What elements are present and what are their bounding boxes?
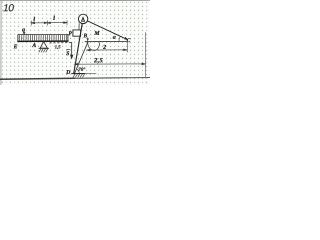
svg-text:M: M: [93, 31, 100, 37]
dimension 2.5: [75, 63, 146, 65]
dimension 2: [87, 49, 127, 51]
svg-text:B: B: [83, 33, 88, 39]
bottom page border: [0, 78, 75, 79]
cable B to C (slanted): [88, 21, 128, 40]
cable pulley to D (post): [74, 24, 83, 74]
lever horizontal bar to C: [85, 40, 127, 42]
witness line below C: [126, 40, 128, 52]
load hatch arrows: [20, 35, 67, 41]
dashed axis line: [49, 42, 71, 44]
pulley circle: [78, 14, 87, 23]
svg-text:D: D: [65, 70, 71, 76]
angle arc at C: [119, 36, 120, 41]
witness tick left: [30, 21, 32, 26]
top page border: [0, 0, 150, 2]
left page border: [0, 0, 2, 85]
dimension line over beam: [31, 20, 67, 25]
bent lever strut to D: [74, 41, 88, 74]
pulley pin: [81, 17, 84, 21]
svg-text:E: E: [13, 44, 18, 50]
svg-text:2,5: 2,5: [93, 57, 103, 64]
svg-text:10: 10: [3, 3, 14, 14]
support A base line: [39, 47, 49, 49]
svg-text:70°: 70°: [78, 68, 85, 73]
witness tick middle: [46, 20, 48, 25]
dot grid: [0, 0, 150, 85]
angle arc at D: [77, 69, 80, 74]
beam with load band: [17, 34, 68, 41]
paper background: [0, 0, 150, 85]
force S arrow: [71, 42, 73, 59]
svg-text:P: P: [68, 31, 72, 37]
q arrow: [23, 31, 25, 34]
ground hatching at D: [73, 74, 85, 78]
witness tick right: [66, 20, 68, 25]
ground line at D: [71, 72, 85, 74]
svg-text:S: S: [66, 51, 69, 57]
support A hatching: [39, 49, 48, 53]
support A triangle: [40, 42, 47, 49]
cable pulley to block: [78, 23, 80, 30]
weight block: [73, 30, 81, 36]
moment curved arrow: [88, 38, 100, 51]
svg-text:1,5: 1,5: [55, 44, 61, 49]
svg-text:2: 2: [102, 45, 106, 51]
right wall border: [145, 32, 147, 78]
svg-text:A: A: [31, 43, 36, 49]
